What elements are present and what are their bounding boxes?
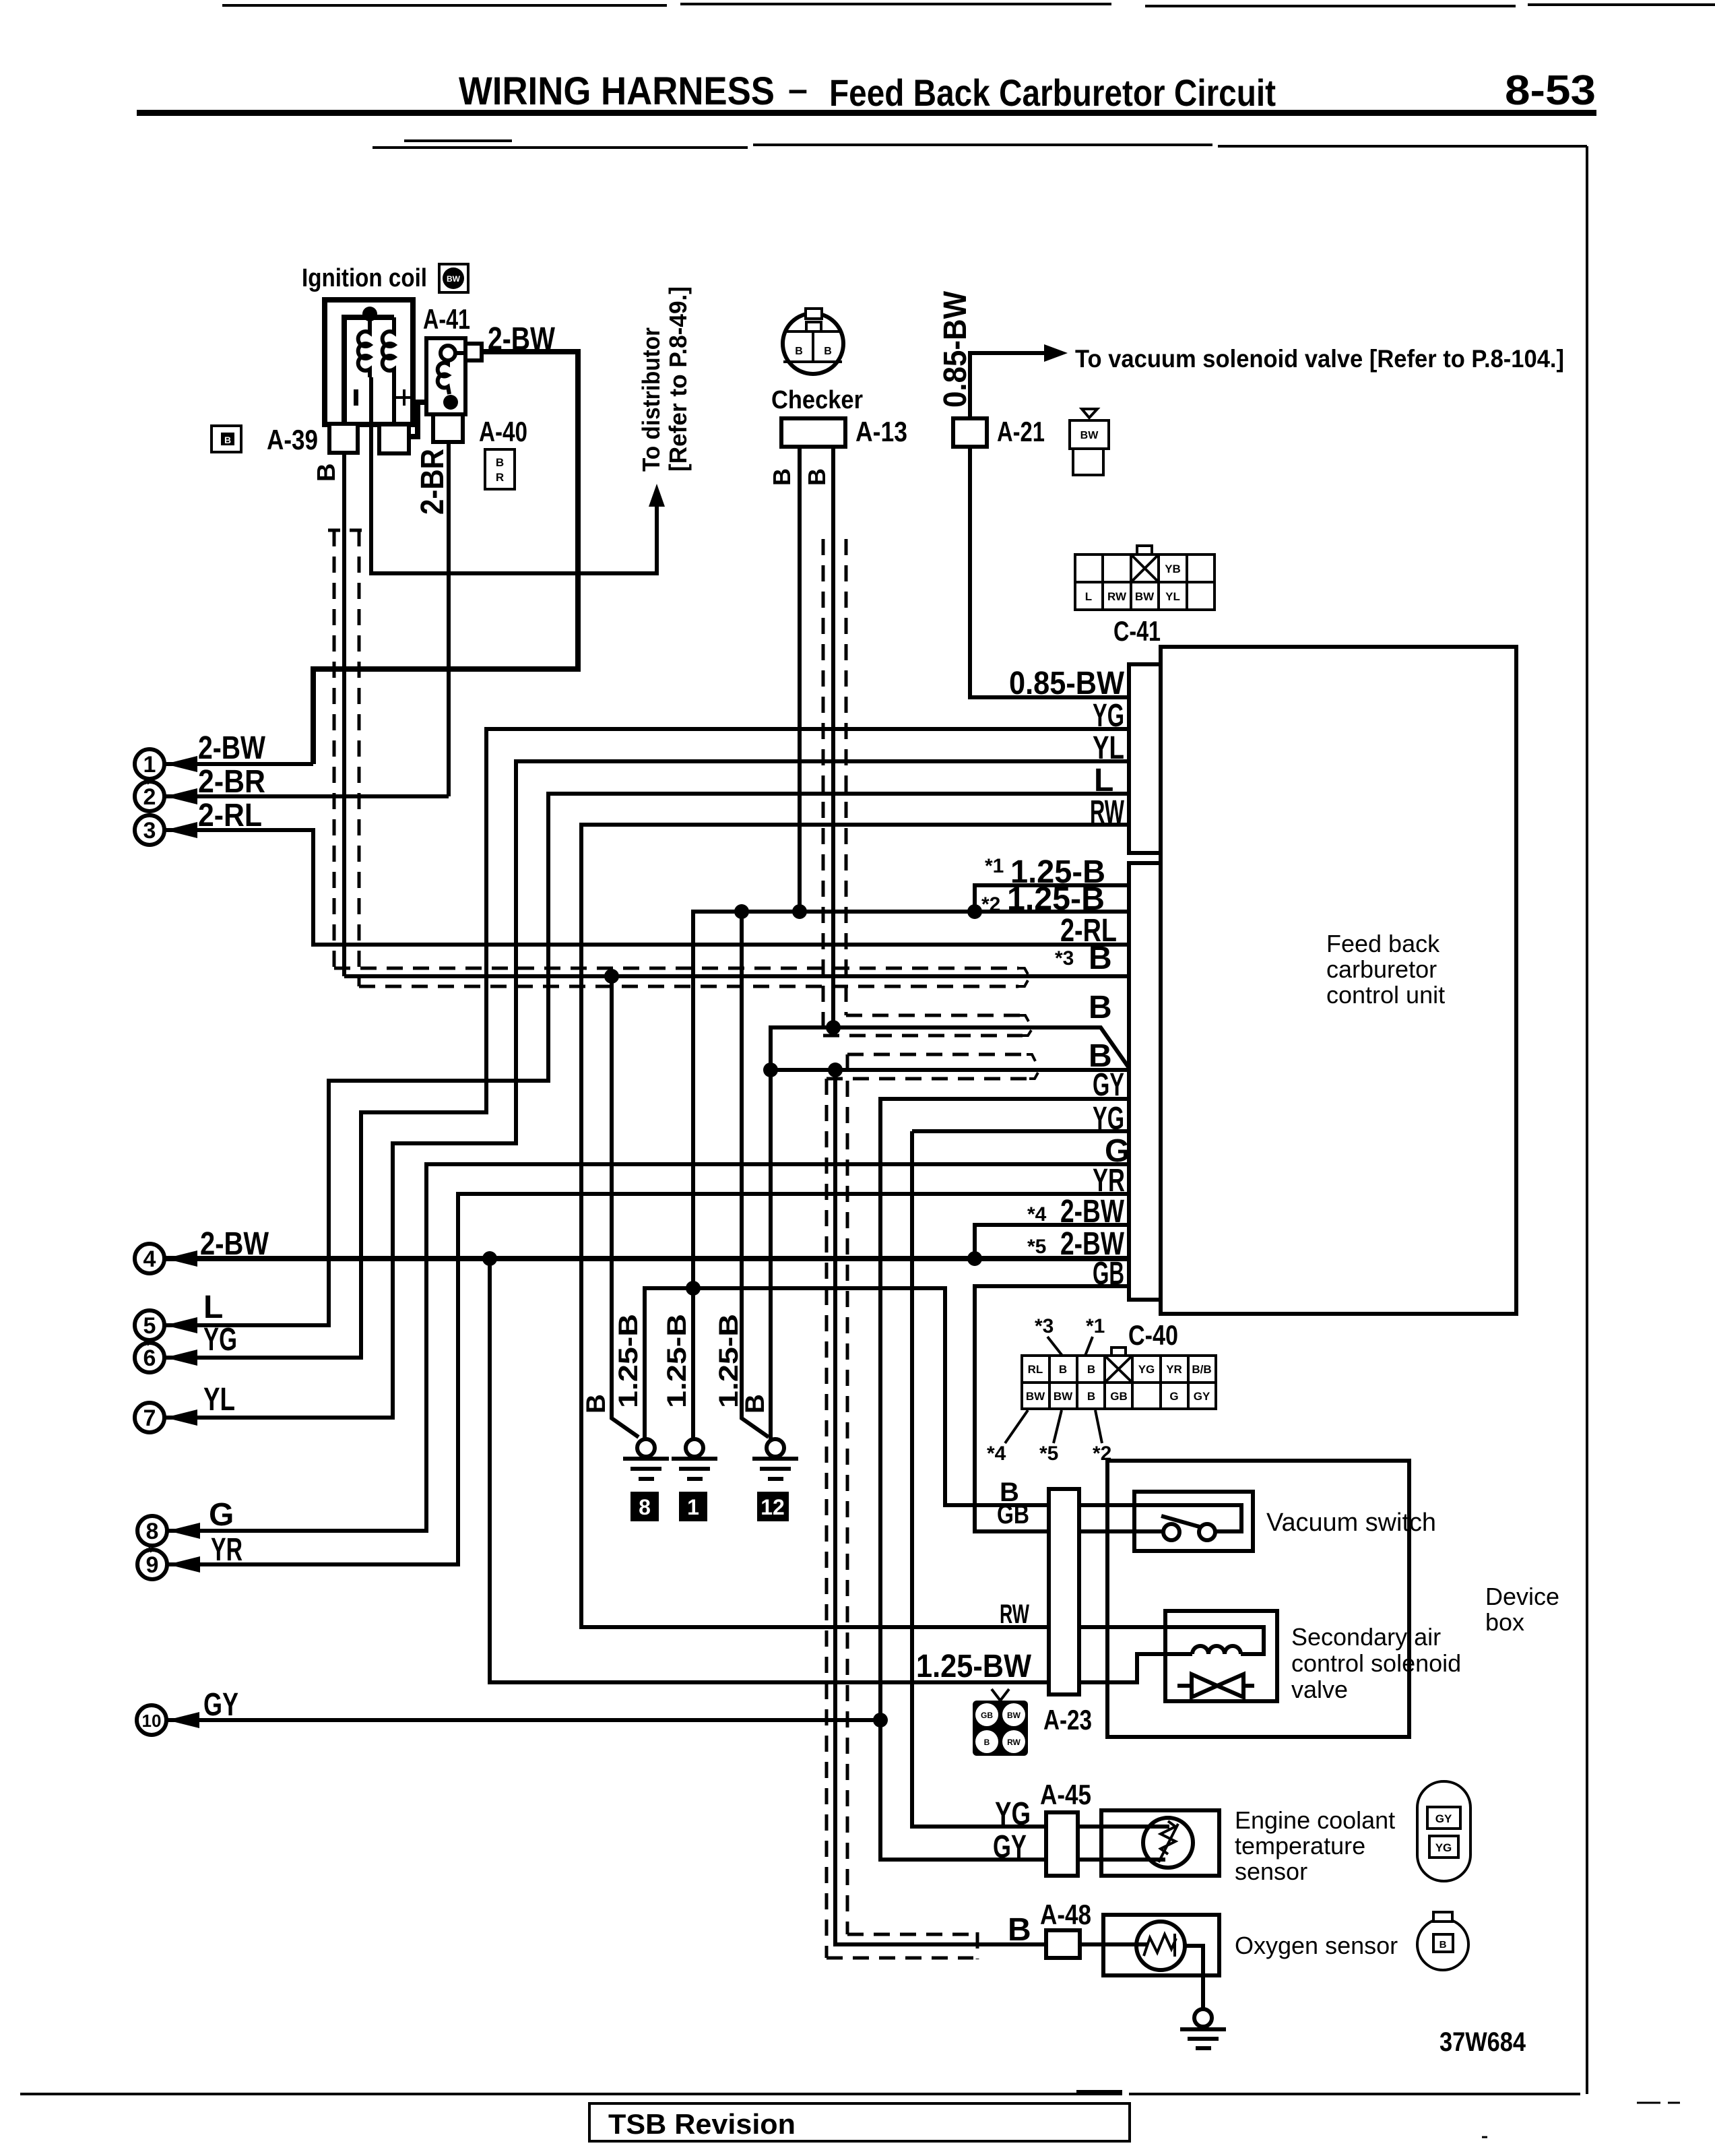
svg-text:BW: BW bbox=[1080, 430, 1099, 441]
svg-text:C-40: C-40 bbox=[1128, 1319, 1178, 1351]
svg-text:1.25-B: 1.25-B bbox=[662, 1314, 692, 1408]
svg-text:4: 4 bbox=[143, 1246, 156, 1272]
wire GB pin to vacuum switch bbox=[975, 1286, 1163, 1531]
svg-text:12: 12 bbox=[761, 1495, 785, 1519]
dashed shield around A-39 B wire bbox=[328, 530, 362, 986]
A-41 lower connector bbox=[433, 414, 463, 442]
junction dot 2-BW *4 bbox=[967, 1251, 982, 1266]
junction dot *1 on 1.25-B bbox=[967, 904, 982, 919]
wire A-41 to coil plus connector bbox=[409, 402, 426, 437]
svg-text:YG: YG bbox=[203, 1322, 237, 1358]
svg-text:A-21: A-21 bbox=[997, 416, 1045, 447]
wire B first pin (checker right) bbox=[833, 1027, 1129, 1068]
svg-text:8-53: 8-53 bbox=[1505, 67, 1596, 114]
A-21 device icon bbox=[1070, 409, 1109, 475]
ignition coil junction dot bbox=[362, 307, 377, 321]
oxygen sensor ground terminal bbox=[1180, 2009, 1226, 2048]
svg-text:L: L bbox=[1085, 590, 1092, 603]
svg-text:1.25-B: 1.25-B bbox=[614, 1314, 643, 1408]
svg-text:–: – bbox=[788, 70, 808, 109]
svg-text:GB: GB bbox=[997, 1500, 1029, 1529]
wire GY pin to node10 and sensor bbox=[880, 1099, 1129, 1860]
svg-text:BW: BW bbox=[1026, 1390, 1045, 1403]
wire 1.25-B *2 to grounds bbox=[693, 912, 1129, 1440]
ground 2 terminal bbox=[672, 1439, 717, 1479]
wire oxygen sensor to ground bbox=[1185, 1946, 1203, 2009]
svg-text:B: B bbox=[824, 346, 832, 357]
svg-text:B: B bbox=[740, 1394, 770, 1414]
node 5 circle bbox=[135, 1310, 197, 1340]
pin number 1 box bbox=[679, 1492, 707, 1521]
wire B second pin bbox=[771, 1068, 1129, 1072]
C-41 connector grid bbox=[1075, 546, 1215, 610]
dashed shield oxygen B lower bbox=[827, 1957, 973, 1960]
svg-text:valve: valve bbox=[1291, 1676, 1348, 1703]
wire YR pin to node9 bbox=[167, 1194, 1129, 1564]
connector A-39 bbox=[329, 424, 358, 453]
svg-text:*4: *4 bbox=[1027, 1203, 1047, 1226]
node 10 circle bbox=[137, 1705, 199, 1735]
C-40 cell labels bbox=[1026, 1363, 1212, 1403]
svg-text:RW: RW bbox=[1007, 1738, 1021, 1747]
svg-text:L: L bbox=[203, 1290, 223, 1325]
wire B into oxygen sensor bbox=[1080, 1942, 1148, 1946]
page top scan edge line bbox=[222, 4, 1715, 6]
svg-text:[Refer to P.8-49.]: [Refer to P.8-49.] bbox=[664, 286, 692, 472]
node 4 circle bbox=[135, 1244, 197, 1273]
svg-text:BW: BW bbox=[447, 274, 461, 284]
vacuum switch arm bbox=[1161, 1516, 1202, 1527]
svg-text:Device: Device bbox=[1485, 1583, 1559, 1610]
svg-text:B: B bbox=[1087, 1363, 1095, 1376]
svg-text:B: B bbox=[768, 468, 796, 486]
wire B branch to ground3 bbox=[771, 1027, 833, 1440]
svg-text:RW: RW bbox=[1107, 590, 1127, 603]
node 6 circle bbox=[135, 1343, 197, 1372]
vacuum switch contact left bbox=[1163, 1524, 1179, 1540]
svg-text:1: 1 bbox=[687, 1495, 699, 1519]
diagram frame bottom border bbox=[20, 2093, 1680, 2137]
Checker connector icon bbox=[783, 309, 843, 374]
wire 2-BW to node1 bbox=[164, 762, 313, 766]
dashed shield down to oxygen sensor bbox=[827, 1054, 847, 1958]
svg-text:BW: BW bbox=[1054, 1390, 1073, 1403]
wire B net grounds to vacuum switch bbox=[645, 1288, 1241, 1531]
dashed shield oxygen end cap bbox=[976, 1932, 979, 1959]
svg-text:GB: GB bbox=[1110, 1390, 1128, 1403]
dashed shield B first lower bbox=[823, 1034, 1023, 1038]
svg-text:GY: GY bbox=[993, 1829, 1027, 1865]
svg-text:*3: *3 bbox=[1055, 947, 1074, 970]
svg-text:1.25-BW: 1.25-BW bbox=[916, 1649, 1032, 1684]
engine coolant temperature sensor box bbox=[1101, 1810, 1219, 1876]
junction dot GY node10 branch bbox=[873, 1713, 888, 1727]
wire circle to tab bbox=[455, 351, 465, 355]
A-41 tab connector bbox=[465, 344, 482, 360]
svg-text:YG: YG bbox=[1138, 1363, 1155, 1376]
svg-text:B: B bbox=[795, 346, 803, 357]
svg-text:R: R bbox=[496, 471, 504, 484]
vacuum switch contact right bbox=[1199, 1524, 1215, 1540]
svg-text:GY: GY bbox=[203, 1687, 238, 1723]
svg-text:*3: *3 bbox=[1035, 1315, 1054, 1337]
A-40 connector icon bbox=[485, 449, 515, 489]
ignition coil secondary winding bbox=[383, 317, 394, 377]
body ground icon B bbox=[212, 426, 241, 452]
wire coil to distributor bbox=[371, 377, 657, 573]
wire 1.25-B down to ground3 bbox=[742, 912, 769, 1437]
svg-text:*: * bbox=[146, 1544, 153, 1562]
node 2 circle bbox=[135, 782, 197, 811]
svg-text:Checker: Checker bbox=[771, 386, 863, 414]
svg-text:To vacuum solenoid valve [Refe: To vacuum solenoid valve [Refer to P.8-1… bbox=[1075, 345, 1564, 373]
node 3 circle bbox=[135, 815, 197, 845]
svg-text:1: 1 bbox=[143, 752, 156, 778]
title rule bbox=[137, 110, 1596, 116]
dashed shield B second lower bbox=[827, 1077, 1029, 1081]
ignition resistor A-41 box bbox=[426, 338, 465, 414]
oxygen sensor box bbox=[1103, 1915, 1219, 1975]
solenoid coil bbox=[1192, 1646, 1241, 1654]
junction dot checker B left on 1.25-B bbox=[792, 904, 807, 919]
svg-text:A-48: A-48 bbox=[1040, 1899, 1091, 1930]
svg-text:RW: RW bbox=[1000, 1599, 1029, 1629]
connector A-23 bbox=[1049, 1489, 1079, 1694]
svg-text:*1: *1 bbox=[985, 855, 1004, 877]
junction dot B net ground2 bbox=[686, 1281, 701, 1296]
svg-text:8: 8 bbox=[639, 1495, 651, 1519]
engine coolant connector icon bbox=[1417, 1781, 1470, 1881]
svg-text:*: * bbox=[143, 775, 150, 794]
svg-text:control unit: control unit bbox=[1326, 981, 1445, 1009]
wire 0.85-BW up with arrow to vacuum solenoid valve bbox=[970, 353, 1048, 418]
svg-text:*: * bbox=[143, 1337, 150, 1355]
A-41 terminal circle bbox=[441, 346, 455, 360]
svg-text:B: B bbox=[1087, 1390, 1095, 1403]
connector A-48 bbox=[1046, 1930, 1080, 1958]
svg-text:37W684: 37W684 bbox=[1439, 2027, 1526, 2057]
connector A-45 bbox=[1046, 1812, 1078, 1876]
svg-text:B/B: B/B bbox=[1192, 1363, 1211, 1376]
svg-text:A-40: A-40 bbox=[479, 416, 527, 447]
svg-text:GB: GB bbox=[981, 1711, 993, 1720]
svg-text:*5: *5 bbox=[1039, 1442, 1058, 1465]
wire YG into sensor bbox=[1078, 1825, 1169, 1829]
svg-text:carburetor: carburetor bbox=[1326, 955, 1437, 983]
svg-text:GY: GY bbox=[1194, 1390, 1210, 1403]
svg-text:B: B bbox=[224, 435, 231, 445]
ignition coil connector icon BW bbox=[439, 264, 468, 292]
svg-text:B: B bbox=[1439, 1939, 1447, 1951]
svg-text:GY: GY bbox=[1435, 1812, 1452, 1825]
junction dot B second left bbox=[763, 1063, 778, 1077]
ignition coil box bbox=[325, 300, 413, 424]
svg-text:3: 3 bbox=[143, 818, 156, 844]
svg-text:C-41: C-41 bbox=[1113, 615, 1161, 647]
C-41 cell labels bbox=[1085, 563, 1181, 603]
coil minus mark bbox=[354, 389, 358, 406]
dashed shield B second upper bbox=[847, 1053, 1027, 1056]
wire YG pin to node6 bbox=[164, 729, 1129, 1358]
ground 3 terminal bbox=[752, 1439, 798, 1479]
svg-text:YG: YG bbox=[1435, 1841, 1452, 1854]
svg-text:2-BR: 2-BR bbox=[415, 449, 451, 515]
junction dot 1.25-B ground3 branch bbox=[734, 904, 749, 919]
coil plus mark bbox=[396, 389, 412, 406]
device box bbox=[1107, 1461, 1409, 1737]
dashed shield *3 B lower bbox=[359, 985, 1018, 988]
svg-text:B: B bbox=[313, 464, 341, 482]
svg-text:B: B bbox=[803, 468, 831, 486]
svg-text:Oxygen sensor: Oxygen sensor bbox=[1235, 1932, 1398, 1959]
wire RW pin to A-23 bbox=[581, 825, 1129, 1627]
node 1 circle bbox=[135, 749, 197, 779]
pin number 12 box bbox=[757, 1492, 789, 1521]
junction dot B first / ground branch bbox=[826, 1020, 841, 1035]
svg-text:1.25-B: 1.25-B bbox=[714, 1314, 744, 1408]
svg-text:G: G bbox=[209, 1497, 234, 1533]
svg-text:G: G bbox=[1169, 1390, 1178, 1403]
TSB Revision box bbox=[589, 2103, 1130, 2141]
ignition coil primary winding bbox=[358, 318, 370, 377]
wire 2-BR to node2 bbox=[164, 794, 449, 798]
connector A-21 box bbox=[953, 418, 987, 447]
wire YG to A-45 bbox=[912, 1129, 1129, 1133]
svg-text:B: B bbox=[1059, 1363, 1067, 1376]
wire B checker right bbox=[831, 447, 835, 1027]
svg-text:Ignition coil: Ignition coil bbox=[302, 264, 427, 292]
dashed shield B first upper bbox=[846, 1014, 1020, 1017]
svg-text:7: 7 bbox=[143, 1405, 156, 1431]
svg-text:*4: *4 bbox=[987, 1442, 1006, 1465]
wire 2-RL node3 to control unit bbox=[164, 830, 1129, 945]
connector A-13 box bbox=[781, 418, 845, 447]
wire B to oxygen sensor bbox=[835, 1070, 1046, 1944]
svg-text:temperature: temperature bbox=[1235, 1832, 1365, 1860]
wire 2-BR from A-41 bbox=[447, 442, 451, 796]
A-23 connector face icon bbox=[973, 1689, 1028, 1756]
wire GY into sensor bbox=[1078, 1858, 1165, 1862]
svg-text:*1: *1 bbox=[1086, 1315, 1105, 1337]
oxygen connector icon bbox=[1417, 1912, 1468, 1970]
svg-text:Vacuum switch: Vacuum switch bbox=[1266, 1509, 1436, 1537]
dashed shield *3 B upper bbox=[334, 967, 1018, 970]
ignition coil internal top wire bbox=[344, 317, 394, 424]
svg-text:sensor: sensor bbox=[1235, 1858, 1307, 1885]
svg-text:Engine coolant: Engine coolant bbox=[1235, 1806, 1395, 1834]
wire YL pin to node7 bbox=[164, 761, 1129, 1418]
svg-text:To distributor: To distributor bbox=[637, 327, 665, 472]
wire B down to ground1 bbox=[612, 976, 639, 1437]
svg-text:0.85-BW: 0.85-BW bbox=[1009, 666, 1125, 701]
node 8 circle bbox=[137, 1516, 200, 1546]
A-41 terminal dot bbox=[443, 395, 458, 410]
svg-text:B: B bbox=[581, 1394, 611, 1414]
svg-text:box: box bbox=[1485, 1608, 1524, 1636]
svg-text:2-BW: 2-BW bbox=[198, 730, 266, 766]
feed back carburetor control unit box bbox=[1161, 647, 1516, 1314]
svg-text:A-45: A-45 bbox=[1040, 1779, 1091, 1810]
svg-text:TSB Revision: TSB Revision bbox=[608, 2108, 796, 2140]
wire *1 1.25-B pin stub bbox=[975, 885, 1129, 912]
svg-text:YL: YL bbox=[203, 1382, 235, 1418]
diagram frame top border (broken) bbox=[373, 141, 1587, 148]
svg-text:A-23: A-23 bbox=[1043, 1704, 1092, 1736]
wire 2-BW node4 to control unit pin *5 bbox=[164, 1256, 1129, 1261]
wire B checker left bbox=[798, 447, 802, 912]
svg-text:YR: YR bbox=[1166, 1363, 1182, 1376]
coil plus connector A-41 side bbox=[379, 424, 409, 453]
svg-text:B: B bbox=[496, 456, 504, 469]
C-40 connector grid bbox=[1022, 1347, 1216, 1409]
junction dot 2-BW to 1.25-BW branch bbox=[482, 1251, 497, 1266]
wire RW into solenoid bbox=[1079, 1627, 1264, 1654]
ground 1 terminal bbox=[623, 1439, 669, 1479]
dashed shield oxygen B upper bbox=[847, 1933, 973, 1936]
junction dot *3 B ground branch bbox=[604, 969, 619, 984]
svg-text:*5: *5 bbox=[1027, 1236, 1046, 1258]
svg-text:5: 5 bbox=[143, 1313, 156, 1339]
wire 1.25-BW into solenoid bbox=[1079, 1654, 1192, 1682]
control unit pin block 1 bbox=[1129, 664, 1161, 853]
svg-text:10: 10 bbox=[142, 1711, 162, 1731]
wire 2-BW from A-41 tab bbox=[313, 352, 578, 764]
svg-text:BW: BW bbox=[1007, 1711, 1021, 1720]
svg-text:A-41: A-41 bbox=[423, 303, 470, 335]
svg-text:WIRING HARNESS: WIRING HARNESS bbox=[459, 69, 775, 113]
svg-text:8: 8 bbox=[146, 1519, 159, 1544]
svg-text:YB: YB bbox=[1165, 563, 1181, 575]
wire 1.25-BW from 2-BW junction to A-23 bbox=[490, 1259, 1049, 1682]
svg-text:Secondary air: Secondary air bbox=[1291, 1623, 1441, 1651]
wire *3 B conductor from A-39 to control unit bbox=[344, 974, 1129, 978]
wire G pin to node8 bbox=[167, 1164, 1129, 1531]
node 7 circle bbox=[135, 1403, 197, 1432]
svg-text:RL: RL bbox=[1028, 1363, 1043, 1376]
arrow to distributor bbox=[649, 484, 665, 507]
oxygen sensor element bbox=[1136, 1922, 1185, 1970]
svg-text:B: B bbox=[1089, 990, 1112, 1025]
svg-text:control solenoid: control solenoid bbox=[1291, 1649, 1461, 1677]
wire coil secondary to connector bbox=[392, 377, 396, 426]
A-41 resistor squiggle bbox=[438, 360, 449, 394]
wire *4 2-BW pin stub bbox=[975, 1225, 1129, 1259]
node 9 circle bbox=[137, 1550, 200, 1579]
control unit pin block 2 bbox=[1129, 863, 1161, 1300]
solenoid valve symbol bbox=[1177, 1674, 1254, 1697]
diagram frame right border bbox=[1586, 146, 1588, 2094]
wire L pin to node5 bbox=[164, 794, 1129, 1325]
wire 0.85-BW down to control unit bbox=[970, 447, 1129, 697]
engine coolant sensor element bbox=[1143, 1818, 1193, 1868]
svg-text:A-39: A-39 bbox=[267, 424, 318, 455]
svg-text:Feed Back Carburetor Circuit: Feed Back Carburetor Circuit bbox=[829, 71, 1276, 114]
svg-text:BW: BW bbox=[1135, 590, 1155, 603]
junction dot B second oxygen branch bbox=[828, 1063, 843, 1077]
svg-text:YL: YL bbox=[1165, 590, 1180, 603]
svg-text:B: B bbox=[984, 1738, 990, 1747]
wire B from A-39 bbox=[342, 453, 346, 976]
svg-text:A-13: A-13 bbox=[855, 416, 907, 447]
secondary air control solenoid valve box bbox=[1165, 1611, 1277, 1701]
vacuum switch box bbox=[1134, 1492, 1253, 1551]
pin number 8 box bbox=[630, 1492, 659, 1521]
svg-text:Feed back: Feed back bbox=[1326, 930, 1440, 957]
svg-text:B: B bbox=[1008, 1912, 1031, 1948]
dashed shield around checker B wires bbox=[823, 539, 846, 1036]
